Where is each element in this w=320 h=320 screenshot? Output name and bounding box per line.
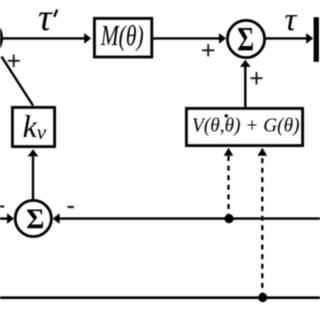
svg-text:v: v bbox=[37, 120, 47, 144]
block at right edge (cut off) bbox=[314, 17, 319, 62]
arrowhead dashed wire 2 into V block bbox=[258, 148, 268, 156]
summing junction S2 bbox=[15, 200, 51, 236]
dashed wire 1 from junction dot 1 to V block bbox=[227, 156, 229, 219]
svg-text:τ: τ bbox=[285, 2, 298, 38]
summing junction S0 (cut off at left edge) bbox=[0, 19, 2, 56]
dashed wire 2 from junction dot 2 to V block bbox=[261, 156, 263, 298]
arrowhead into S2 left bbox=[7, 213, 14, 224]
svg-text:k: k bbox=[23, 108, 38, 144]
arrowhead dashed wire 1 into V block bbox=[224, 148, 234, 156]
junction dot 1 on middle wire bbox=[224, 214, 233, 223]
arrowhead into S2 right bbox=[53, 213, 60, 224]
label + for S0 lower input bbox=[8, 55, 20, 67]
svg-text:Σ: Σ bbox=[26, 205, 44, 236]
arrowhead into M(theta) bbox=[84, 33, 91, 44]
left stub wire into S2 bbox=[0, 217, 8, 219]
label minus for S2 right input bbox=[68, 206, 74, 208]
block M(theta) bbox=[94, 18, 151, 57]
wire V block to S1 bbox=[244, 67, 246, 109]
diagonal wire from S0 to kv top bbox=[2, 57, 34, 106]
svg-text:M(θ): M(θ) bbox=[100, 21, 144, 52]
label + for S1 bottom input bbox=[250, 72, 262, 85]
svg-text:V(θ,θ) + G(θ): V(θ,θ) + G(θ) bbox=[192, 115, 300, 137]
arrowhead into right block bbox=[306, 33, 313, 44]
block V(theta,thetadot)+G(theta) bbox=[186, 108, 302, 145]
arrowhead into kv block bottom bbox=[28, 149, 39, 156]
label minus for S2 left input (cut) bbox=[0, 205, 4, 207]
label + for S1 left input bbox=[202, 44, 214, 56]
middle feedback wire bbox=[59, 217, 320, 219]
arrowhead into S1 bottom bbox=[240, 60, 251, 67]
wire S1 to output block bbox=[266, 37, 307, 39]
bottom feedback wire bbox=[0, 296, 320, 299]
label tau-prime bbox=[38, 0, 57, 39]
summing junction S1 bbox=[227, 19, 264, 57]
arrowhead into S1 left bbox=[219, 33, 226, 44]
wire S2 to kv block bbox=[32, 157, 34, 201]
junction dot 2 on bottom wire bbox=[258, 293, 267, 302]
wire tau-prime from S0 to M(theta) bbox=[0, 37, 86, 39]
block kv bbox=[12, 107, 54, 146]
svg-text:Σ: Σ bbox=[237, 19, 254, 57]
svg-text:τ: τ bbox=[38, 0, 53, 39]
wire M(theta) to S1 bbox=[153, 37, 220, 39]
